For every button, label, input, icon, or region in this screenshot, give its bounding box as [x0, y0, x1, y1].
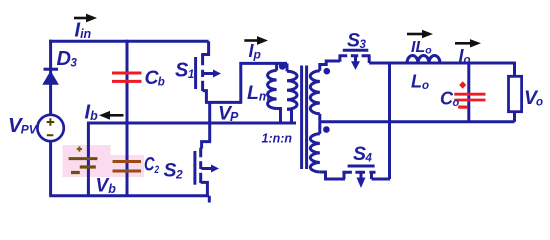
- transistor S4: [342, 166, 390, 188]
- wire Vo branch top: [513, 62, 516, 77]
- svg-text:Iin: Iin: [75, 20, 92, 42]
- wire Vo branch bottom: [513, 112, 516, 122]
- svg-text:S4: S4: [353, 143, 373, 165]
- capacitor Cb: [112, 73, 142, 81]
- capacitor C2 highlight: [107, 155, 144, 177]
- winding primary: [287, 63, 297, 123]
- wire capacitor column: [126, 40, 129, 196]
- svg-text:Ib: Ib: [85, 102, 99, 124]
- wire Vp jog: [205, 101, 241, 104]
- inductor Lm: [268, 62, 281, 123]
- diode D3: [42, 69, 59, 85]
- svg-text:S3: S3: [347, 30, 367, 52]
- svg-text:Lo: Lo: [411, 72, 429, 93]
- winding secondary top: [310, 61, 340, 122]
- wire rectifier junction vertical: [388, 63, 391, 179]
- battery highlight: [63, 145, 111, 177]
- capacitor C2: [113, 162, 142, 172]
- wire bottom rail: [49, 194, 209, 197]
- svg-text:Co: Co: [440, 89, 460, 110]
- transistor S2: [195, 142, 219, 203]
- svg-text:VP: VP: [218, 103, 239, 125]
- wire battery column: [87, 122, 90, 196]
- svg-text:Vo: Vo: [524, 87, 543, 109]
- arrow I_Lo: [407, 30, 433, 38]
- wire S4 bottom: [324, 178, 345, 181]
- arrow I_o: [455, 39, 481, 47]
- wire left column lower: [49, 141, 52, 196]
- arrow I_p: [244, 36, 268, 45]
- svg-text:D3: D3: [57, 48, 78, 70]
- transformer core: [302, 66, 307, 170]
- svg-text:1:n:n: 1:n:n: [262, 132, 293, 146]
- svg-text:Cb: Cb: [145, 67, 165, 89]
- inductor Lo: [407, 56, 440, 63]
- wire midpoint vertical: [208, 101, 211, 142]
- load Vo: [509, 76, 522, 111]
- arrow I_b: [99, 111, 124, 120]
- wire primary riser: [239, 62, 242, 104]
- arrow I_in: [74, 14, 97, 23]
- wire center tap: [320, 120, 514, 123]
- winding secondary bottom: [310, 122, 325, 179]
- svg-text:VPV: VPV: [8, 114, 38, 137]
- svg-text:Vb: Vb: [96, 176, 117, 197]
- battery Vb: [69, 146, 98, 172]
- node dot secondary bottom: [323, 126, 330, 133]
- node dot primary: [279, 63, 286, 70]
- wire output top: [369, 62, 514, 65]
- node dot secondary top: [324, 68, 331, 75]
- source V_PV: [37, 115, 63, 141]
- wire Vp rail: [87, 122, 296, 125]
- wire top rail: [49, 40, 208, 43]
- capacitor Co: [454, 81, 485, 107]
- wire primary top: [239, 62, 287, 65]
- svg-text:S2: S2: [164, 160, 184, 182]
- svg-text:C2: C2: [144, 154, 159, 177]
- transistor S3: [339, 50, 371, 70]
- wire left column upper: [49, 40, 52, 115]
- wire Co column: [467, 63, 470, 122]
- svg-text:ILo: ILo: [411, 39, 432, 57]
- svg-text:S1: S1: [175, 60, 194, 82]
- transistor S1: [196, 41, 221, 102]
